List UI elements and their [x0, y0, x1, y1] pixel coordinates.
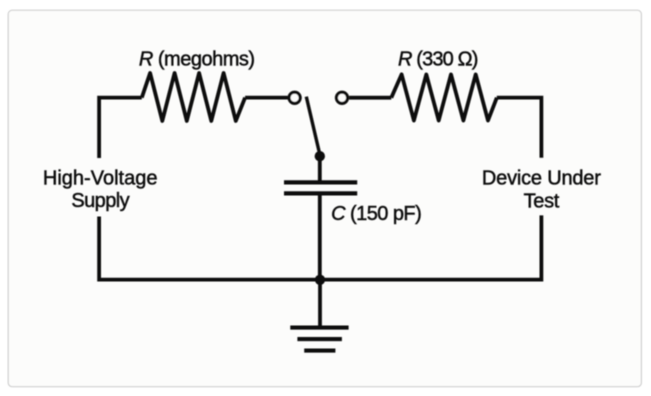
svg-text:Supply: Supply [71, 190, 129, 212]
svg-text:Device Under: Device Under [482, 168, 601, 190]
wire: R1 to switch pole contact [245, 96, 288, 100]
ground symbol bar 2 (middle) [297, 337, 342, 341]
wire: junction node down to capacitor top plate [318, 154, 322, 181]
node: bottom rail junction dot [315, 275, 325, 285]
switch S1 lever arm [306, 97, 320, 155]
node: switch/capacitor junction dot [315, 151, 325, 161]
ground symbol bar 3 (bottom, narrowest) [304, 349, 335, 353]
wire: ground stub below bottom rail [318, 280, 322, 328]
wire: capacitor bottom plate down to bottom rail [318, 196, 322, 280]
wire: switch throw contact to R2 [349, 96, 391, 100]
wire: left rail upper segment with top-left corner to R1 [99, 98, 142, 158]
svg-text:R (330 Ω): R (330 Ω) [398, 49, 478, 71]
resistor R2 (330 ohm) zigzag body [391, 74, 497, 120]
resistor R1 (megohms) zigzag body [142, 73, 245, 121]
svg-text:Test: Test [524, 190, 560, 212]
svg-text:High-Voltage: High-Voltage [43, 168, 158, 190]
switch S1 pole contact circle [289, 92, 300, 103]
capacitor C1 bottom plate [284, 191, 357, 195]
svg-text:R (megohms): R (megohms) [139, 49, 255, 71]
ground symbol bar 1 (top, widest) [290, 326, 348, 330]
svg-text:C (150 pF): C (150 pF) [331, 203, 421, 225]
switch S1 throw contact circle [336, 92, 347, 103]
wire: left rail lower segment with bottom-left corner [99, 217, 320, 280]
capacitor C1 top plate [284, 180, 357, 184]
wire: bottom rail right half with bottom-right corner and right rail lower segment [320, 215, 541, 279]
wire: R2 to top-right corner and right rail upper segment [497, 98, 542, 158]
